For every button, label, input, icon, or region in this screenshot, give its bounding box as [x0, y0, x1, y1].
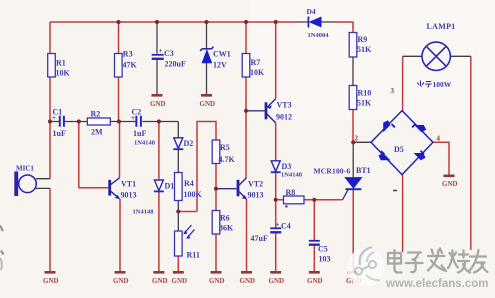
wire D2 to R4	[177, 149, 179, 173]
wire VT2 emitter to ground	[246, 199, 248, 271]
wire mic bottom to ground	[49, 188, 51, 271]
junction D1 branch node	[157, 119, 161, 123]
svg-text:2M: 2M	[91, 128, 103, 137]
svg-text:R8: R8	[286, 188, 296, 197]
svg-text:10K: 10K	[56, 69, 71, 78]
svg-text:100K: 100K	[184, 190, 203, 199]
svg-text:9013: 9013	[248, 191, 264, 200]
svg-text:R4: R4	[184, 179, 194, 188]
wire VT1 emitter to ground	[119, 199, 121, 271]
svg-text:9012: 9012	[276, 113, 292, 122]
svg-text:D3: D3	[282, 162, 292, 171]
ground C5	[307, 272, 323, 285]
transistor VT1	[108, 178, 136, 200]
svg-text:VT2: VT2	[248, 180, 263, 189]
svg-text:D4: D4	[307, 7, 316, 16]
svg-text:GND: GND	[200, 100, 216, 108]
wire D3 to R8 node	[275, 173, 277, 200]
watermark logo circle	[347, 247, 385, 286]
wire lamp right down	[470, 56, 472, 250]
ground SCR cathode	[346, 272, 362, 285]
svg-text:R11: R11	[187, 251, 200, 260]
svg-text:103: 103	[319, 255, 331, 264]
wire R6 bottom to ground	[215, 234, 217, 271]
junction R7 VT3 base node	[244, 109, 248, 113]
lamp LAMP1	[422, 22, 456, 71]
ground D1	[152, 272, 168, 285]
diode D1	[133, 180, 175, 216]
microphone MIC1	[14, 165, 50, 197]
svg-text:MIC1: MIC1	[16, 165, 34, 173]
thyristor BT1 MCR100-6	[314, 166, 371, 189]
wire VT1 base branch	[79, 122, 109, 188]
svg-text:D1: D1	[165, 182, 175, 191]
ground CW1	[200, 95, 216, 108]
svg-text:R7: R7	[251, 58, 261, 67]
svg-text:1N4004: 1N4004	[308, 32, 330, 39]
wire CW1 leads	[206, 22, 208, 95]
capacitor C4	[251, 221, 291, 244]
bridge rectifier D5	[371, 111, 433, 191]
wire R5 feed corner	[197, 122, 216, 212]
svg-text:GND: GND	[240, 277, 256, 285]
wire C4 leads	[275, 200, 277, 271]
resistor R9	[349, 33, 372, 58]
svg-text:C4: C4	[281, 222, 291, 231]
svg-text:GND: GND	[172, 277, 188, 285]
wire SCR cathode to ground	[352, 190, 354, 271]
wire C5 leads	[313, 200, 315, 271]
svg-text:VT3: VT3	[277, 101, 292, 110]
resistor R2	[87, 110, 110, 137]
svg-text:1N4148: 1N4148	[281, 172, 303, 179]
svg-text:GND: GND	[442, 180, 458, 188]
wire R9 to R10	[352, 57, 354, 86]
resistor R6	[212, 211, 234, 235]
wire R4 bottom to R5 feed	[178, 211, 197, 213]
svg-text:www.elecfans.com: www.elecfans.com	[385, 278, 488, 290]
junction R5 R6 VT2 base node	[214, 187, 218, 191]
junction R3 top rail	[116, 20, 120, 24]
svg-text:4.7K: 4.7K	[219, 155, 236, 164]
wire SCR gate slant	[343, 189, 349, 200]
transistor VT2	[237, 178, 264, 200]
svg-text:+: +	[276, 221, 280, 229]
svg-text:BT1: BT1	[356, 166, 371, 175]
svg-text:9013: 9013	[121, 191, 137, 200]
svg-text:4: 4	[437, 135, 441, 143]
wire D1 branch	[158, 122, 160, 272]
junction node 2 SCR anode	[351, 140, 355, 144]
ground VT1 emitter	[113, 272, 129, 285]
svg-text:47uF: 47uF	[251, 234, 268, 243]
svg-text:51K: 51K	[357, 99, 372, 108]
photoresistor R11	[175, 225, 200, 260]
wire signal line black segments	[50, 122, 178, 138]
svg-text:GND: GND	[113, 277, 129, 285]
resistor R1	[48, 54, 71, 78]
wire R1 bottom to mic top	[49, 77, 51, 179]
svg-text:VT1: VT1	[121, 180, 136, 189]
zener diode CW1	[200, 47, 230, 70]
ground VT2 emitter	[240, 272, 256, 285]
junction VT1 base node	[77, 119, 81, 123]
svg-text:CW1: CW1	[213, 50, 231, 59]
wire R11 top lead	[177, 212, 179, 232]
svg-text:GND: GND	[307, 277, 323, 285]
junction R3 R2 C2 VT1 collector node	[117, 119, 121, 123]
resistor R5	[212, 140, 235, 164]
svg-text:100W: 100W	[433, 80, 452, 89]
junction D3 R8 C4 node	[274, 198, 278, 202]
svg-text:1N4148: 1N4148	[134, 140, 156, 147]
wire R7 branch and VT2 collector	[245, 22, 247, 178]
svg-text:LAMP1: LAMP1	[427, 22, 456, 31]
svg-text:D5: D5	[394, 145, 404, 154]
svg-text:1uF: 1uF	[133, 129, 146, 138]
junction R8 C5 gate node	[312, 198, 316, 202]
svg-text:GND: GND	[209, 277, 225, 285]
svg-text:GND: GND	[152, 277, 168, 285]
svg-text:1uF: 1uF	[53, 129, 66, 138]
diode D3	[271, 161, 303, 179]
wire R8 left and right	[276, 199, 343, 201]
resistor R7	[242, 54, 265, 78]
svg-text:R10: R10	[358, 89, 372, 98]
svg-text:1N4148: 1N4148	[133, 209, 155, 216]
wire SCR anode	[352, 142, 354, 177]
wire bridge right to node 4 ground	[433, 142, 449, 175]
svg-text:R1: R1	[56, 59, 66, 68]
ground C4	[269, 272, 285, 285]
junction C3 top rail	[155, 20, 159, 24]
wire R10 to node 2	[352, 110, 354, 143]
svg-text:51K: 51K	[357, 45, 372, 54]
wire R3 top branch	[118, 22, 120, 54]
wire node 2 to bridge left	[353, 141, 371, 143]
transistor VT3	[265, 99, 292, 123]
ground below mic rail	[43, 272, 59, 285]
capacitor C2	[131, 108, 156, 147]
wire VT3 base	[246, 110, 265, 112]
svg-text:R2: R2	[91, 110, 101, 119]
ground R11	[172, 272, 188, 285]
svg-text:GND: GND	[150, 100, 166, 108]
wire lamp stubs	[403, 55, 471, 57]
wire bridge bottom AC	[402, 175, 404, 252]
resistor R4	[175, 173, 203, 201]
wire R3 bottom to signal node	[118, 77, 120, 122]
svg-text:*: *	[285, 203, 289, 212]
svg-text:MCR100-6: MCR100-6	[314, 167, 351, 176]
svg-text:+: +	[131, 114, 135, 122]
wire VT1 collector	[119, 122, 121, 178]
wire VT3 emitter branch	[275, 22, 277, 99]
junction R4 R11 node	[176, 209, 180, 213]
svg-text:GND: GND	[43, 277, 59, 285]
wire top rail left	[50, 21, 297, 23]
junction R1 C1 mic node	[48, 119, 52, 123]
svg-text:C3: C3	[164, 49, 174, 58]
capacitor C5	[309, 241, 331, 264]
svg-text:10K: 10K	[250, 68, 265, 77]
wire lamp left to bridge top	[402, 56, 404, 110]
svg-text:36K: 36K	[219, 224, 234, 233]
label under lamp 100W with hand-drawn CJK	[418, 80, 452, 89]
diode D2	[173, 138, 193, 149]
wire VT2 base	[216, 188, 237, 190]
svg-text:+: +	[159, 47, 163, 55]
wire C3 leads	[156, 22, 158, 95]
svg-text:2: 2	[355, 135, 359, 143]
wire VT3 collector to D3	[275, 123, 277, 161]
watermark big text dian zi fa shao you	[388, 249, 488, 273]
svg-text:R6: R6	[220, 214, 230, 223]
svg-text:47K: 47K	[123, 61, 138, 70]
svg-text:3: 3	[391, 87, 395, 95]
svg-text:C5: C5	[318, 245, 328, 254]
svg-text:220uF: 220uF	[165, 60, 186, 69]
wire R5 bottom to R6 top	[215, 164, 217, 211]
wire D4 stubs	[297, 21, 334, 23]
junction R7 top rail	[244, 20, 248, 24]
svg-text:D2: D2	[184, 139, 194, 148]
svg-text:R5: R5	[220, 143, 230, 152]
svg-text:GND: GND	[269, 277, 285, 285]
resistor R8	[284, 188, 305, 212]
ground node 4	[442, 176, 458, 188]
ground R6	[209, 272, 225, 285]
svg-text:12V: 12V	[213, 61, 227, 70]
resistor R10	[349, 86, 372, 110]
junction VT3 emitter rail	[274, 20, 278, 24]
svg-text:+: +	[52, 114, 56, 122]
wire R4 bottom stub	[177, 201, 179, 212]
resistor R3	[115, 50, 138, 78]
svg-text:R3: R3	[123, 50, 133, 59]
capacitor C3	[152, 47, 186, 69]
wire R11 bottom to ground	[177, 256, 179, 271]
diode D4	[307, 7, 330, 39]
junction CW1 top rail	[204, 20, 208, 24]
wire left rail top to R1	[49, 22, 51, 54]
wire top rail right with corner to R9	[334, 22, 354, 33]
capacitor C1	[52, 108, 66, 139]
svg-text:R9: R9	[358, 35, 368, 44]
ground C3	[150, 95, 166, 108]
